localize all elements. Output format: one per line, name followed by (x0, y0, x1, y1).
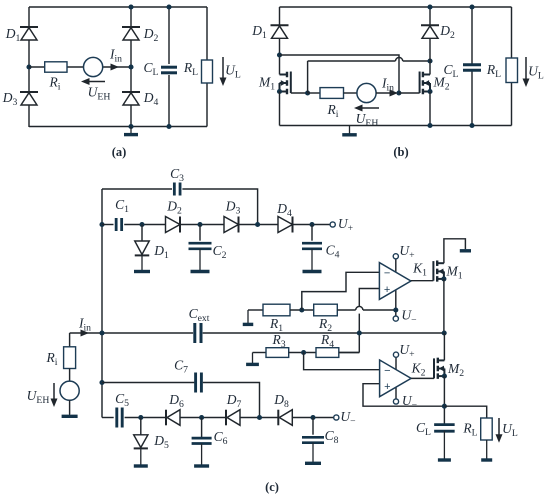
resistor R1 (263, 304, 290, 316)
wire Ri to source (c) (69, 369, 71, 382)
figure (c) left vertical wire (101, 189, 103, 418)
resistor Ri (c) (69, 333, 71, 347)
node C4 top (309, 222, 314, 227)
wire M1 source to main wire (443, 279, 445, 333)
node R3-R4 junction (301, 350, 306, 355)
arrow Iin (a) (111, 64, 120, 71)
terminal U+ upper (330, 222, 335, 227)
supply terminal U+ K1 (393, 254, 398, 259)
arrow UL (b) (525, 57, 527, 79)
diode D1 (20, 26, 38, 28)
node left AC (b) (277, 52, 282, 57)
node K1 plus main wire (357, 330, 362, 335)
ground M1 drain (460, 249, 471, 252)
node CL bottom (b) (469, 123, 474, 128)
node C7 bottom junction (257, 415, 262, 420)
wire to RL (c) (444, 406, 486, 418)
wire D8 to U- terminal (292, 417, 334, 419)
wire R1 to R2 (290, 309, 314, 311)
node D5 top (138, 415, 143, 420)
wire C3 to row (182, 189, 257, 225)
ground RL (c) (486, 440, 488, 459)
ground R1 (247, 310, 249, 323)
resistor RL branch wire (a) (206, 7, 208, 60)
wire K1 output to M1 gate (411, 280, 434, 282)
capacitor CL branch wire (a) (168, 7, 170, 64)
node M2 gate junction (396, 90, 401, 95)
wire D4 to U+ terminal (293, 224, 331, 226)
diode D2 (122, 26, 140, 28)
ground CL (c) (443, 431, 445, 459)
wire K2 output to M2 gate (411, 377, 434, 379)
node main left vertical (99, 330, 104, 335)
arrow UEH (b) (362, 107, 379, 109)
node D2 top (b) (427, 4, 432, 9)
wire C1 to D2 (124, 224, 165, 226)
ground C6 (201, 444, 203, 466)
wire D7 to D8 (240, 417, 278, 419)
svg-text:+: + (384, 284, 390, 296)
ground UEH (c) (69, 414, 71, 415)
svg-text:(a): (a) (112, 145, 127, 159)
wire D1 top (b) (279, 7, 281, 25)
wire R1-R2 junction to K1 minus input (302, 272, 380, 310)
arrow UL (c) (498, 418, 500, 435)
node main wire right (442, 330, 447, 335)
capacitor CL branch (b) (471, 7, 473, 65)
capacitor C8 (312, 418, 314, 435)
wire cross-couple right AC to M1 gate with hop (291, 92, 308, 94)
wire M2 source down (443, 376, 445, 425)
node K1 U- junction (393, 307, 398, 312)
svg-text:(b): (b) (393, 145, 408, 159)
ground (a) (130, 127, 132, 134)
wire M2 gate lead (399, 92, 420, 94)
middle wire (b) (308, 92, 320, 94)
arrow UEH (a) (89, 81, 105, 83)
wire M2 drain to main wire (443, 333, 445, 360)
supply terminal U+ K2 (393, 352, 398, 357)
op-amp K1 (395, 259, 397, 274)
diode D3 (c) (224, 217, 239, 233)
diode D1 (b) (271, 24, 289, 26)
wire R3-R4 junction to K2 minus input (304, 353, 380, 370)
node C3 junction (255, 222, 260, 227)
wire C7 to D7-D8 node (203, 383, 260, 418)
node M1 source (277, 89, 282, 94)
ground C4 (311, 249, 313, 271)
transistor M1 (b) (286, 72, 288, 78)
middle wire (a) (29, 66, 131, 68)
capacitor CL (a) (161, 66, 177, 69)
wire to C7 (102, 382, 194, 384)
supply terminal U- K1 (393, 316, 398, 321)
node CL bottom (a) (166, 124, 171, 129)
node C2 top (197, 222, 202, 227)
node upper row left (99, 222, 104, 227)
terminal U- lower (334, 415, 339, 420)
node D1 top (139, 222, 144, 227)
node top D2 branch (128, 4, 133, 9)
ground D1 (c) (141, 255, 143, 270)
transistor M1 (c) (436, 260, 438, 266)
diode D2 (c) (166, 217, 181, 233)
capacitor C4 (311, 225, 313, 241)
diode D4 (122, 91, 140, 93)
top wire to C3 (102, 188, 172, 190)
ground R3 (252, 353, 254, 364)
node R1-R2 junction (299, 307, 304, 312)
resistor R4 (316, 348, 339, 358)
bottom row wire left (102, 417, 114, 419)
resistor Ri (b) (320, 88, 344, 99)
ground (b) (349, 126, 351, 134)
node right AC (a) (128, 64, 133, 69)
node M2 source (c) (442, 374, 447, 379)
wire M1 drain to ground (444, 239, 466, 263)
wire ground to R1 (248, 309, 263, 311)
arrow Iin (c) (81, 330, 90, 337)
node left AC (a) (26, 64, 31, 69)
wire D3 to D4 (239, 224, 279, 226)
diode D3 (20, 91, 38, 93)
diode D7 (225, 410, 227, 426)
wire D2 to D3 (180, 224, 224, 226)
wire source to ground (c) (69, 400, 71, 414)
wire R3 to R4 (289, 352, 316, 354)
svg-text:+: + (384, 381, 390, 393)
capacitor C7 (194, 373, 197, 393)
svg-text:−: − (384, 268, 390, 280)
wire M2 source to bottom rail (429, 92, 431, 126)
figure (b) top rail wire (280, 6, 512, 8)
wire D2 to M2 drain (429, 39, 431, 75)
node right AC (b) (427, 58, 432, 63)
wire D4 to bottom rail (130, 105, 132, 128)
capacitor C6 (201, 418, 203, 439)
wire cross-couple left AC to M2 gate (280, 55, 400, 93)
wire D2 to D4 (130, 40, 132, 93)
wire C5 to D6 (125, 417, 166, 419)
wire D6 to D7 (180, 417, 226, 419)
wire Ri to source (b) (344, 92, 358, 94)
current source UEH (a) (84, 57, 103, 76)
node C7 row (99, 380, 104, 385)
wire ground to R3 (253, 352, 267, 354)
bottom rail wire (a) (29, 126, 207, 128)
node C6 top (199, 415, 204, 420)
arrow UL (a) (222, 57, 224, 78)
resistor RL branch (b) (511, 7, 513, 58)
current source UEH (c) (60, 381, 79, 400)
capacitor CL (b) (463, 63, 481, 66)
capacitor CL (c) (434, 423, 455, 426)
ground C8 (312, 443, 314, 463)
node output K2 plus (442, 404, 447, 409)
wire R4 to K1 plus vertical (339, 352, 360, 354)
ground D5 (140, 449, 142, 465)
node C8 top (310, 415, 315, 420)
svg-text:−: − (384, 365, 390, 377)
capacitor Cext (193, 323, 196, 343)
transistor M2 (c) (437, 358, 439, 364)
wire R2 to K1 supply node with hop (337, 309, 355, 311)
capacitor C2 (199, 225, 201, 241)
svg-text:(c): (c) (265, 480, 279, 494)
diode D6 (165, 410, 167, 426)
node M2 bottom rail (427, 123, 432, 128)
resistor RL (b) (506, 58, 518, 83)
diode D4 (c) (278, 217, 293, 233)
transistor M2 (b) (422, 72, 424, 78)
diode D8 (277, 410, 279, 426)
wire D1 to M1 drain (279, 39, 281, 75)
resistor Ri (a) (45, 62, 67, 72)
current source UEH (b) (357, 83, 376, 102)
supply terminal U- K2 (393, 399, 398, 404)
main input wire (c) (70, 332, 194, 334)
wire D2 top (b) (429, 7, 431, 25)
diode D1 (c) (141, 225, 143, 242)
arrow UEH (c) (53, 383, 55, 399)
capacitor C1 (102, 224, 114, 226)
resistor R3 (266, 348, 289, 358)
op-amp K2 (395, 357, 397, 371)
capacitor C3 (173, 183, 176, 196)
node M1 source (c) (441, 276, 446, 281)
figure (a) top rail wire (29, 6, 207, 8)
resistor RL (a) (202, 60, 213, 83)
wire K2 plus input to output node (363, 384, 444, 407)
resistor R2 (314, 304, 338, 316)
node CL top (b) (469, 4, 474, 9)
ground C2 (199, 249, 201, 271)
wire D3 to bottom rail (28, 105, 30, 128)
resistor RL (c) (481, 418, 493, 440)
node CL top (a) (166, 4, 171, 9)
wire D2 top (a) (130, 7, 132, 27)
wire M1 source to bottom rail (279, 92, 281, 126)
figure (a) left branch wire (28, 7, 30, 27)
bottom rail wire (b) (280, 125, 512, 127)
diode D5 (140, 418, 142, 435)
wire K1 plus input to main wire and R4 (359, 289, 379, 307)
node M2 source (427, 89, 432, 94)
wire D1 to D3 (28, 40, 30, 93)
node D4 bottom (128, 124, 133, 129)
arrow Iin (b) (376, 92, 390, 94)
diode D2 (b) (421, 24, 439, 26)
capacitor C5 (115, 408, 118, 428)
